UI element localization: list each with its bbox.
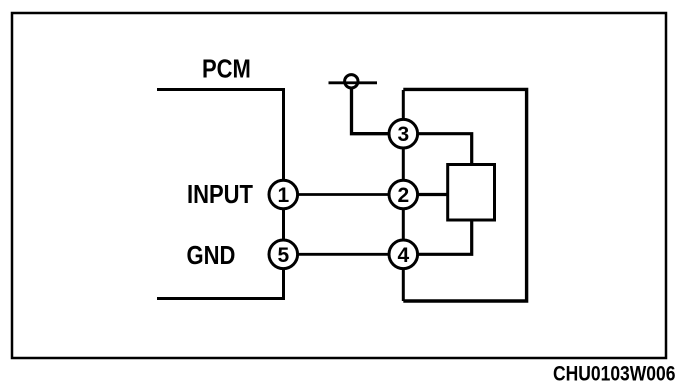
svg-text:CHU0103W006: CHU0103W006 — [553, 363, 676, 384]
svg-text:INPUT: INPUT — [187, 180, 253, 209]
svg-text:GND: GND — [187, 241, 236, 270]
component box — [448, 165, 495, 221]
wire terminal 2 to terminal 1 — [290, 193, 395, 196]
feedback wire loop top right bottom — [403, 89, 526, 301]
terminal 5 — [269, 240, 298, 269]
wire component to terminal 4 — [412, 219, 472, 254]
svg-text:1: 1 — [277, 184, 289, 207]
wire terminal 2 to component — [412, 193, 448, 196]
wire terminal 5 to terminal 4 — [290, 253, 395, 256]
terminal 4 — [389, 240, 418, 269]
terminal 1 — [269, 180, 298, 209]
svg-text:4: 4 — [397, 244, 409, 267]
terminal 3 — [389, 119, 418, 148]
bus wire through terminals 3 2 4 — [402, 90, 405, 301]
svg-text:5: 5 — [277, 244, 289, 267]
wire power to terminal 3 — [352, 88, 393, 134]
PCM connector outline — [157, 90, 284, 299]
svg-text:3: 3 — [397, 123, 409, 146]
svg-text:2: 2 — [397, 184, 409, 207]
wire terminal 3 to component top — [415, 134, 472, 166]
svg-text:PCM: PCM — [202, 55, 251, 84]
terminal 2 — [389, 180, 418, 209]
power supply symbol B+ — [329, 75, 378, 88]
